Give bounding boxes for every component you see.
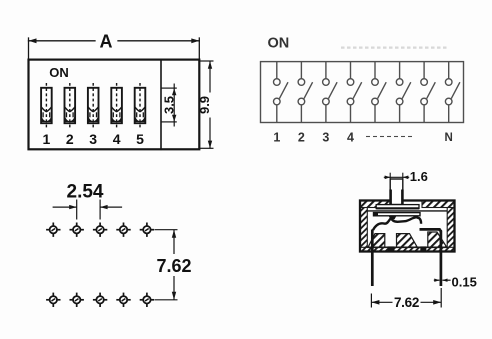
cavity ceiling line	[367, 210, 448, 212]
terminal foot right	[420, 246, 426, 251]
pad row 1 pin 4	[116, 223, 130, 237]
pad row 2 pin 5	[140, 293, 154, 307]
compression ghost streak	[341, 46, 448, 48]
dimension 2.54	[53, 200, 123, 220]
dimension 3.5	[161, 84, 177, 127]
pad row 2 pin 1	[46, 293, 60, 307]
housing outline	[360, 201, 455, 252]
pole 3 contacts	[323, 62, 338, 123]
pole 7 contacts	[421, 62, 435, 123]
svg-text:2: 2	[66, 131, 74, 147]
pole 8 contacts	[445, 62, 459, 123]
pad row 1 pin 3	[93, 223, 107, 237]
svg-text:0.15: 0.15	[452, 274, 477, 289]
svg-text:7.62: 7.62	[156, 256, 191, 276]
svg-text:5: 5	[136, 131, 144, 147]
svg-text:4: 4	[113, 131, 121, 147]
dimension 7.62 (section)	[371, 288, 441, 308]
pin 2 (right lead)	[420, 229, 441, 286]
svg-text:1: 1	[273, 130, 280, 144]
ellipsis dashes	[366, 136, 412, 138]
body divider line	[160, 60, 162, 150]
switch 5 slot	[135, 83, 146, 128]
switch 4 slot	[111, 83, 122, 128]
svg-text:3: 3	[322, 130, 329, 144]
base terminal block left	[368, 234, 385, 248]
pad row 1 pin 5	[140, 223, 154, 237]
dimension A line	[29, 40, 96, 42]
dimension 9.9	[199, 61, 213, 148]
pad row 2 pin 4	[116, 293, 130, 307]
pole 6 contacts	[396, 62, 410, 123]
base terminal block middle	[397, 234, 418, 248]
dimension 0.15	[434, 279, 451, 281]
svg-text:A: A	[100, 32, 113, 52]
svg-text:2.54: 2.54	[67, 181, 104, 202]
fixed contact bar	[374, 213, 421, 216]
pole 4 contacts	[347, 62, 362, 123]
svg-text:9.9: 9.9	[197, 96, 212, 114]
terminal foot left	[388, 246, 395, 251]
pole 1 contacts	[274, 62, 289, 123]
switch 2 slot	[65, 83, 76, 128]
svg-text:ON: ON	[268, 36, 290, 52]
switch 1 slot	[41, 83, 52, 128]
schematic body	[261, 62, 464, 123]
svg-text:2: 2	[298, 130, 305, 144]
actuator knob	[390, 179, 403, 205]
pin 1 (left lead)	[371, 230, 374, 287]
slider plate	[376, 205, 419, 209]
body outline	[29, 60, 200, 150]
dimension A extension line left	[28, 38, 30, 60]
pole 2 contacts	[298, 62, 313, 123]
dimension 1.6	[384, 173, 409, 180]
cavity floor line	[367, 246, 447, 248]
svg-text:N: N	[445, 132, 453, 144]
pad row 1 pin 1	[46, 223, 60, 237]
contact bump	[389, 216, 397, 220]
svg-text:4: 4	[347, 130, 354, 144]
pad row 2 pin 2	[70, 293, 84, 307]
dimension 7.62 (footprint)	[155, 230, 178, 300]
housing hatched walls	[360, 201, 455, 252]
svg-text:1: 1	[43, 131, 51, 147]
movable spring contact	[373, 217, 421, 230]
pad row 1 pin 2	[70, 223, 84, 237]
svg-text:3: 3	[89, 131, 97, 147]
switch 3 slot	[88, 83, 99, 128]
svg-text:3.5: 3.5	[162, 96, 177, 114]
svg-text:7.62: 7.62	[394, 295, 419, 310]
svg-text:ON: ON	[49, 65, 69, 80]
dimension A extension line right	[198, 38, 200, 60]
pad row 2 pin 3	[93, 293, 107, 307]
svg-text:1.6: 1.6	[410, 169, 428, 184]
pole 5 contacts	[372, 62, 387, 123]
base terminal block right	[428, 232, 447, 247]
